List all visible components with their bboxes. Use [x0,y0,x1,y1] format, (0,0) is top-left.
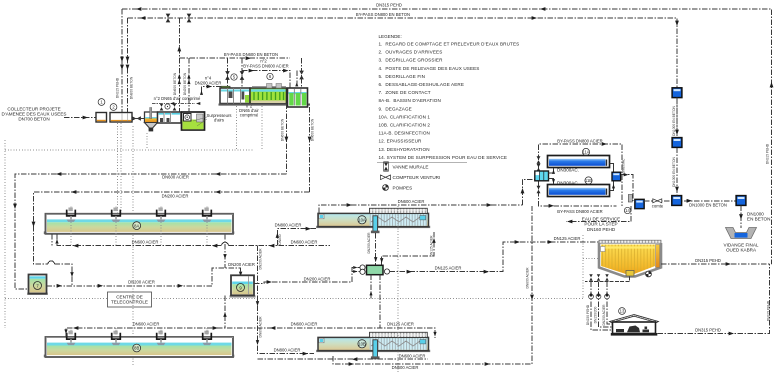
svg-text:DN200 ACIER: DN200 ACIER [162,194,189,199]
pipe contact tank riser 2 [296,71,298,88]
riser by-pass beton lower [676,98,678,196]
tank 7 zone de contact [288,88,308,107]
svg-text:DN200 ACIER: DN200 ACIER [228,262,255,267]
pipe BY-PASS DN800 EN BETON top [128,12,678,130]
svg-text:BY-PASS DN600 ACIER: BY-PASS DN600 ACIER [243,64,288,69]
svg-text:1. REGARD DE COMPTAGE ET PREL: 1. REGARD DE COMPTAGE ET PRELEVEUR D'EAU… [379,42,520,47]
arrow outfall after junction box [687,199,692,203]
svg-text:10B. CLARIFICATION 2: 10B. CLARIFICATION 2 [379,123,431,128]
svg-text:DN125 ACIER: DN125 ACIER [554,236,581,241]
svg-text:DN160 PEHD: DN160 PEHD [587,227,616,232]
svg-text:10A: 10A [358,218,366,223]
pipe inlet to regard [64,117,96,119]
pipe by-pass link riser [178,18,180,58]
arrows on clarified line [347,203,492,207]
legend separator line [377,162,467,164]
pipe vidange drop [740,206,742,229]
mixers on 8A [67,207,212,222]
riser return to inlet works 1 [121,9,123,112]
arrow on by-pass beton line [140,16,145,20]
arrow air line right [196,102,200,105]
dotted vertical below ouvrages 2 [120,123,122,213]
svg-text:11A: 11A [582,150,589,155]
node 7 circled in tank [34,282,42,290]
svg-text:DN315 PEHD: DN315 PEHD [766,143,770,164]
arrows up on risers [178,74,191,84]
svg-text:BY-PASS DN600 EN BETON: BY-PASS DN600 EN BETON [224,52,278,57]
svg-text:DN300AC.: DN300AC. [557,181,579,186]
svg-text:DN700 BETON: DN700 BETON [18,117,49,122]
standpipe hydrophore 14 [628,195,632,203]
pipe sludge 10A to pump [367,232,377,266]
svg-text:DN150 PEHD: DN150 PEHD [586,304,590,325]
pipe service dotted horizontal long [5,298,583,300]
valve murale above chamber 1 [537,156,541,163]
svg-text:POMPES: POMPES [393,186,413,191]
riser zone de contact vent [301,58,303,88]
node 6 circled dessablage [267,73,273,79]
dotted vertical below ouvrages 1 [117,123,119,213]
arrow down grit outlet [285,137,289,142]
dotted vertical below degrillage fin [236,106,238,150]
arrow on top return line left [136,7,141,11]
svg-text:DN200 BETON: DN200 BETON [183,72,187,95]
riser valve degrillage 2 [241,58,243,88]
svg-text:11A-B. DESINFECTION: 11A-B. DESINFECTION [379,131,430,136]
svg-text:DN800AC: DN800AC [622,158,626,173]
pipe DN600 ACIER clarified to disinfection [319,199,523,213]
pumps sludge transfer [589,294,610,299]
svg-text:DN800 BETON: DN800 BETON [130,76,134,99]
svg-text:OUED KABRA: OUED KABRA [726,248,757,253]
arrows on 8B feed line [64,326,436,336]
riser poste relevage 2 [188,58,190,112]
svg-text:DN800 ACIER: DN800 ACIER [259,316,263,338]
pipe DN600 ACIER main to basins [15,174,286,289]
node 8A circled [133,222,141,230]
arrow n4 line [207,85,212,89]
arrow down riser 2 [675,187,679,192]
legend symbol compteur venturi [381,175,441,180]
text surpresseurs d'airs [193,113,231,126]
pipe drop into tank 7 area [54,264,73,286]
svg-text:2. OUVRAGES D'ARRIVEES: 2. OUVRAGES D'ARRIVEES [379,50,443,55]
arrow collector out [624,173,629,176]
dotted drops under 8A mixers [71,222,207,245]
svg-text:DN600 ACIER: DN600 ACIER [398,199,425,204]
arrow up on by-pass link riser [177,46,181,51]
arrow by-pass bottom [549,204,554,208]
dotted vertical below funnel [146,133,148,150]
svg-text:DN600 ACIER: DN600 ACIER [132,240,159,245]
arrow air line left [170,102,174,105]
svg-text:DN125 ACIER: DN125 ACIER [435,266,462,271]
arrows on DN200 main [32,190,221,227]
svg-text:COMPTEUR VENTURI: COMPTEUR VENTURI [393,175,441,180]
node 14 circled [624,207,630,213]
arrow up on right edge riser [770,82,774,87]
pipe DN315 PEHD top return line [122,3,772,265]
node 11B circled [585,177,592,184]
svg-text:DN600 ACIER: DN600 ACIER [392,365,419,370]
pipe thickener overflow DN315 [661,258,772,266]
svg-text:DN600 ACIER: DN600 ACIER [291,322,318,327]
svg-text:4. POSTE DE RELEVAGE DES EAUX: 4. POSTE DE RELEVAGE DES EAUX USEES [379,66,480,71]
tank 12 epaississeur [599,240,661,276]
svg-text:DN600 ACIER: DN600 ACIER [133,322,160,327]
text vidange final [724,243,759,253]
svg-text:DN125 ACIER: DN125 ACIER [430,235,434,257]
tank 7 zone de contact small [27,275,48,296]
pipe DN800 ACIER feed to clarifier 10A [275,223,317,246]
svg-text:10A. CLARIFICATION 1: 10A. CLARIFICATION 1 [379,114,431,119]
pipe DN800 ACIER into 10B [274,348,308,356]
pipe pump drain down [369,275,380,328]
riser return to inlet works 2 [127,18,129,112]
tank 10B clarifier [316,332,430,359]
tank 4 poste de relevage [158,112,182,123]
svg-text:5. DEGRILLAGE FIN: 5. DEGRILLAGE FIN [379,74,426,79]
svg-text:comprimé: comprimé [240,113,259,118]
pipe sludge draw-off manifold [585,277,630,282]
valve after ouvrages [132,116,141,121]
pipe chamber to 11A [549,168,579,174]
tank 11A desinfection [548,156,610,168]
arrows on sludge discharge [407,240,553,274]
svg-text:DN200 ACIER: DN200 ACIER [128,280,155,285]
svg-text:8A-B. BASSIN D'AERATION: 8A-B. BASSIN D'AERATION [379,98,441,103]
pipe 11A outlet to collector box [610,164,614,172]
pipe riser tank9 bottom [223,296,226,329]
tank 11B desinfection [548,185,610,197]
pipe sludge pump discharge EN125 [390,236,600,272]
svg-text:DN1000 EN BETON: DN1000 EN BETON [689,203,727,208]
pipe service dotted stub to thickener [583,258,599,260]
legend symbol vanne murale [384,162,429,171]
pipe feed riser to disinfection [523,180,536,205]
svg-text:BY-PASS DN800 ACIER: BY-PASS DN800 ACIER [557,209,602,214]
svg-text:DN1000 EN BETON: DN1000 EN BETON [672,156,676,186]
svg-text:DN315 PEHD: DN315 PEHD [116,77,120,98]
pipe chamber to 11B [549,179,579,186]
arrow at by-pass acier end [283,69,288,73]
mixers on 8B [67,330,212,345]
arrow down on by-pass beton riser [675,21,679,26]
svg-text:DN1000 EN BETON: DN1000 EN BETON [672,105,676,135]
vidange final outfall structure [726,228,757,239]
pipe drop from DN600 under-basin line to tank 9 [223,234,226,268]
arrow down on riser [675,130,679,135]
dotted drops to 8B mixers [116,328,207,336]
svg-text:DN200 ACIER: DN200 ACIER [304,277,331,282]
svg-text:DN600 BETON: DN600 BETON [173,72,177,95]
node 8B circled [133,344,141,352]
pump at thickener underflow [646,271,652,277]
pipe DN600 ACIER above basin 8B [66,322,435,339]
svg-text:DN200 ACIER: DN200 ACIER [602,304,606,326]
svg-text:DN150/200: DN150/200 [594,306,598,323]
svg-text:LEGENDE:: LEGENDE: [379,34,402,39]
arrows down sludge pipes [589,292,608,297]
junction box by-pass outfall [672,196,682,206]
pipe dotted clarifier axis [397,206,399,372]
tank 1 regard de comptage [96,113,107,123]
text collecteur inlet [2,107,67,122]
dotted vertical below dessableur [261,106,263,150]
pipe service water line [566,206,631,223]
svg-text:DN315 PEHD: DN315 PEHD [695,258,721,263]
pipe reference dotted long [5,149,253,151]
node 2 circled ouvrages d'arrivees [110,104,117,111]
svg-text:DN600 BETON: DN600 BETON [281,118,285,141]
pipe air compressed line [152,103,195,105]
arrow up feed riser [521,188,525,193]
box centre de telecontrole [108,292,152,307]
tank 5 degrillage fin [220,86,250,103]
node 13 circled [619,308,626,315]
pipe waste line to DN800 riser [333,206,534,370]
svg-text:BY-PASS DN800 EN BETON: BY-PASS DN800 EN BETON [356,12,410,17]
pipe down grit chamber outlet [285,104,287,175]
svg-text:DN200 ACIER: DN200 ACIER [195,81,222,86]
pipe n4 DN200 ACIER [195,76,222,93]
svg-text:DN300AC.: DN300AC. [557,168,579,173]
pipe outfall main [644,200,736,202]
pipe BY-PASS DN600 EN BETON [179,52,290,58]
arrows on EN200 from tank7 [57,272,243,288]
svg-text:3. DEGRILLAGE GROSSIER: 3. DEGRILLAGE GROSSIER [379,58,444,63]
svg-text:7. ZONE DE CONTACT: 7. ZONE DE CONTACT [379,90,431,95]
arrow by-pass top [602,142,607,146]
valve murale above chamber 2 [537,164,541,171]
arrow vidange drop [739,214,743,219]
svg-text:DN600 ACIER: DN600 ACIER [399,354,426,359]
svg-text:BY-PASS DN800 ACIER: BY-PASS DN800 ACIER [557,139,602,144]
svg-text:14: 14 [625,208,630,213]
svg-text:DN315 PEHD: DN315 PEHD [376,3,402,8]
pipe dotted vertical far left [4,140,6,328]
svg-text:DN200 ACIER: DN200 ACIER [367,232,371,254]
node 11A circled [582,148,589,155]
svg-text:6. DESSABLAGE-DESHUILAGE AERE: 6. DESSABLAGE-DESHUILAGE AERE [379,82,465,87]
pipe DN600 return under 10B [258,354,429,362]
svg-text:DN800: DN800 [278,234,282,244]
arrow on top return line mid [540,7,545,11]
arrow on by-pass acier [249,69,254,73]
box on riser mid [672,138,682,148]
labels rotated sludge pipes [586,304,606,326]
svg-text:DN800 ACIER: DN800 ACIER [526,267,530,289]
riser poste relevage 1 [178,58,180,112]
svg-text:DN600 BETON: DN600 BETON [311,118,315,141]
venturi meter on outfall [652,199,664,209]
arrow up zone contact riser [295,82,298,86]
tank 9 degazage [230,275,256,297]
pump box system 14 [635,199,644,208]
svg-text:12. EPAISSISSEUR: 12. EPAISSISSEUR [379,139,423,144]
tank 2 ouvrages d'arrivees [110,113,132,123]
node 1 circled regard de comptage [98,99,105,106]
arrow on by-pass beton [246,56,251,60]
pump box before vidange [736,196,746,206]
riser valve degrillage 1 [227,58,229,88]
svg-text:DN200 ACIER: DN200 ACIER [259,248,263,270]
pipe building drain DN315 [658,264,770,335]
pipe collector box to junction [621,175,633,201]
tank 8A bassin aeration [44,214,235,234]
node 9 circled in tank [237,284,245,292]
bridge rail on dessableur [252,84,286,89]
tank 8B bassin aeration [44,337,235,357]
svg-text:8A: 8A [134,223,139,228]
svg-text:TELECONTROLE: TELECONTROLE [111,300,148,305]
tank 6 dessablage-deshuilage aere [250,88,287,104]
valve after node 5 [240,71,245,80]
node 10A circled [358,216,366,224]
pipe BY-PASS DN600 ACIER [242,64,290,88]
pump recirculation boues [360,265,390,275]
svg-text:9. DEGAZAGE: 9. DEGAZAGE [379,106,412,111]
tank surpresseurs room [182,112,205,130]
valves on sludge manifold [589,274,608,281]
arrows under basin 8A line [55,239,274,248]
node 5 circled degrillage fin [231,74,237,80]
svg-text:14. SYSTEM DE SURPRESSION POUR: 14. SYSTEM DE SURPRESSION POUR EAU DE SE… [379,155,508,160]
air valves and O2 symbols [160,103,177,110]
building 13 deshydratation [610,315,659,336]
svg-text:8B: 8B [134,346,139,351]
text eau de service block [582,216,620,231]
svg-text:10B: 10B [358,342,366,347]
svg-text:EAU DE SERVICE: EAU DE SERVICE [582,216,620,221]
svg-text:DN800 ACIER: DN800 ACIER [275,223,302,228]
pipe by-pass DN800 acier bottom [539,181,617,214]
valve on by-pass beton line 2 [187,14,192,23]
text n2 DN65 air comprime right [239,104,259,118]
svg-text:13. DESHYDRATATION: 13. DESHYDRATATION [379,147,430,152]
svg-text:DN600 ACIER: DN600 ACIER [162,175,189,180]
pipe hop and drop to contact tank 7 [48,261,54,264]
pipe DN200 ACIER main [34,192,310,264]
arrow down contact outlet [308,137,312,142]
pipe sludge 10A right end to pump [380,232,436,266]
svg-text:DN315 PEHD: DN315 PEHD [695,328,721,333]
valve on by-pass beton line 1 [166,14,171,23]
svg-text:EN BETON: EN BETON [747,217,770,222]
svg-text:DN125 ACIER: DN125 ACIER [387,322,414,327]
svg-text:comte: comte [652,204,664,209]
pipe ouvrages to degrillage [132,118,144,120]
node 10B circled [358,340,366,348]
pipe by-pass DN800 acier top [539,139,623,206]
valve before degrillage fin [225,71,230,80]
tank distribution chamber [535,171,549,181]
svg-text:13: 13 [620,309,625,314]
pipe tank9 to pump suction [254,266,360,284]
svg-text:DN800 ACIER: DN800 ACIER [274,348,301,353]
pipe 11B outlet to collector box [610,182,616,191]
arrows down on return risers [120,57,129,70]
svg-text:DN600 ACIER: DN600 ACIER [291,240,318,245]
svg-text:n°2 DN65 d'air comprimé: n°2 DN65 d'air comprimé [154,96,201,101]
legend items [379,42,520,160]
arrow inlet [83,116,88,120]
pipe EN200 ACIER from tank 7 [47,268,241,286]
arrows on DN600 main [13,172,220,209]
svg-text:VANNE MURALE: VANNE MURALE [393,165,429,170]
valve murale below chamber [537,186,541,193]
boxes on by-pass beton riser [672,88,682,98]
pipes sludge down to dewatering [591,282,612,331]
pump box collector outlet [612,172,621,181]
label DN1000 EN BETON at drop [747,212,770,222]
pipe down contact outlet [309,107,311,192]
svg-text:d'airs: d'airs [214,118,224,123]
base slab under structures [219,104,311,106]
valve above zone de contact [299,71,304,80]
legend symbol pompes [383,185,413,191]
tank 3 degrillage grossier with hopper [145,108,158,132]
tank 10A clarifier [316,208,430,233]
pipe service dotted vertical [582,235,584,298]
svg-text:11B: 11B [585,178,592,183]
pipe DN600 ACIER under basin 8A [52,234,330,246]
pipe dotted telecontrole vertical [132,126,134,366]
pipe vertical degazage to clarifier 10B [256,246,314,354]
